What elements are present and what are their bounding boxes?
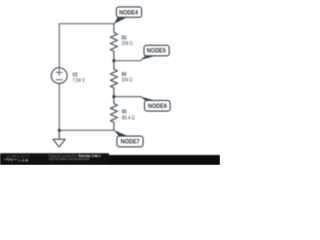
svg-text:NODE7: NODE7: [121, 139, 140, 146]
svg-text:NODE6: NODE6: [148, 103, 167, 110]
junction node B (R4-R5): [112, 95, 115, 98]
wire left rail upper: [58, 24, 60, 68]
node NODE5 flag: [140, 45, 169, 60]
svg-text:NODE4: NODE4: [119, 9, 138, 16]
svg-text:504 Ω: 504 Ω: [122, 77, 133, 83]
footer bar strip: [0, 155, 220, 165]
resistor R4: [110, 61, 117, 97]
wire node5 stub: [114, 60, 141, 62]
wire bottom horizontal: [59, 129, 114, 131]
junction ground node: [58, 129, 61, 132]
node NODE6 flag: [140, 96, 170, 111]
svg-text:7.04 V: 7.04 V: [72, 78, 85, 84]
resistor R5: [110, 97, 117, 131]
ground: [53, 130, 65, 147]
wire top horizontal: [59, 23, 114, 25]
wire left rail lower: [58, 84, 60, 131]
voltage source V2: [51, 68, 67, 84]
node NODE7 flag: [114, 130, 143, 147]
svg-text:LAB: LAB: [19, 157, 29, 162]
svg-text:80.4 Ω: 80.4 Ω: [122, 116, 135, 122]
wire node6 stub: [114, 96, 141, 98]
svg-text:204 Ω: 204 Ω: [122, 41, 133, 47]
resistor R3: [110, 24, 117, 61]
footer CircuitLab logo: [7, 153, 31, 162]
node NODE4 flag: [114, 7, 142, 24]
footer logo squiggle: [4, 158, 18, 160]
footer watermark panel: [0, 153, 109, 165]
svg-text:http://circuitlab.com/c6uua0qb: http://circuitlab.com/c6uua0qbab8: [49, 157, 90, 161]
junction node A (R3-R4): [112, 59, 115, 62]
svg-text:NODE5: NODE5: [147, 48, 166, 55]
